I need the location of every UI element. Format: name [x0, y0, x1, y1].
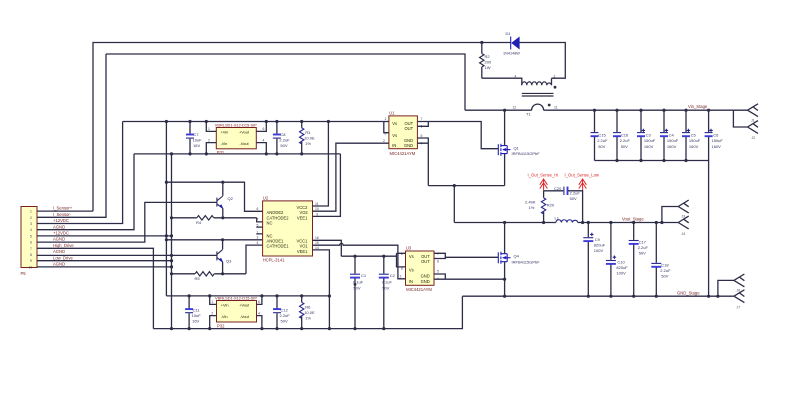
svg-text:6: 6 [257, 207, 259, 211]
svg-text:I_Out_Sense_Hi: I_Out_Sense_Hi [528, 172, 559, 177]
svg-text:1: 1 [385, 117, 387, 121]
svg-text:-Vin: -Vin [221, 314, 228, 319]
svg-text:16: 16 [315, 236, 319, 240]
wire VEE1 drop [313, 250, 330, 329]
svg-text:6: 6 [437, 259, 439, 263]
wire AGND bus (second rail) [134, 153, 340, 155]
capacitor C9 [583, 223, 605, 297]
capacitor C1 [350, 256, 367, 330]
svg-text:7: 7 [257, 218, 259, 222]
svg-text:Q2: Q2 [228, 196, 234, 201]
wire Vin caps return bus [595, 161, 709, 297]
svg-text:High_Drive: High_Drive [53, 243, 74, 248]
svg-text:P32: P32 [217, 323, 225, 328]
svg-text:15: 15 [315, 241, 319, 245]
svg-text:9: 9 [316, 212, 318, 216]
svg-text:Q3: Q3 [226, 259, 232, 264]
resistor R5 [172, 272, 247, 281]
svg-text:2.2uF: 2.2uF [660, 268, 671, 273]
svg-text:C20: C20 [554, 186, 562, 191]
wire D1 anode to cathode loop right [519, 43, 565, 79]
wire VO2 riser to U1 IN [313, 143, 389, 211]
capacitor C6 [705, 110, 724, 160]
svg-text:6: 6 [258, 300, 260, 304]
svg-text:50V: 50V [598, 144, 605, 149]
capacitor C10 [606, 223, 628, 297]
svg-text:2.2uF: 2.2uF [597, 138, 608, 143]
connector P5 [21, 207, 38, 277]
svg-text:U3: U3 [406, 246, 412, 251]
svg-text:R20: R20 [547, 203, 555, 208]
svg-text:C7: C7 [194, 132, 200, 137]
capacitor C11 [185, 296, 201, 330]
svg-text:1%: 1% [305, 316, 311, 321]
svg-text:+Vout: +Vout [239, 130, 250, 135]
svg-text:50V: 50V [353, 285, 360, 290]
dc-dc module P32 [210, 296, 262, 329]
connector J3 [662, 200, 689, 222]
svg-text:6: 6 [263, 127, 265, 131]
capacitor C16 [613, 110, 630, 160]
svg-text:+Vin: +Vin [221, 130, 229, 135]
capacitor C17 [629, 223, 649, 297]
transistor Q4 [498, 223, 540, 297]
svg-text:6: 6 [30, 241, 32, 245]
wire AGND column B [171, 154, 173, 329]
svg-text:AGND: AGND [53, 249, 65, 254]
svg-text:HCPL-3141: HCPL-3141 [263, 257, 286, 262]
svg-text:+Vout: +Vout [239, 303, 250, 308]
wire P5 pin2 [37, 54, 106, 217]
wire P5 pin6 to Q2 base [37, 202, 217, 242]
svg-text:2.49K: 2.49K [525, 200, 536, 205]
wire U1 GND to Q1 source node [428, 185, 504, 187]
svg-text:11: 11 [554, 106, 558, 110]
resistor R4 [170, 216, 257, 225]
svg-text:IN: IN [392, 143, 396, 148]
svg-text:Vs: Vs [409, 254, 414, 259]
wire +12V to ANODE1 [166, 239, 262, 241]
wire P5 pin8 to Q3 base [37, 254, 217, 256]
svg-text:C6: C6 [713, 132, 719, 137]
capacitor C8 [273, 122, 290, 154]
wire U1 GND bracket and drop [417, 138, 428, 186]
wire secondary bus left [465, 109, 532, 111]
svg-text:820uF: 820uF [594, 242, 606, 247]
svg-text:VEE1: VEE1 [297, 249, 308, 254]
SEC-TOPLOOP [93, 31, 758, 296]
resistor R2 [480, 43, 492, 79]
svg-text:2: 2 [208, 138, 210, 142]
svg-text:1: 1 [208, 127, 210, 131]
svg-text:R4: R4 [196, 220, 202, 225]
svg-text:C2: C2 [390, 273, 396, 278]
svg-text:I_Sensor-: I_Sensor- [53, 212, 72, 217]
svg-text:+12VDC: +12VDC [53, 218, 69, 223]
svg-text:U2: U2 [263, 196, 269, 201]
svg-text:100V: 100V [594, 248, 604, 253]
svg-text:D1: D1 [506, 31, 512, 36]
wire net I_Sensor+ top [93, 43, 511, 212]
svg-text:R3: R3 [305, 130, 311, 135]
svg-text:10.0E: 10.0E [304, 310, 315, 315]
svg-text:Vin_Stage: Vin_Stage [688, 104, 708, 109]
wire GND stage bus [462, 295, 734, 297]
connector J4 [678, 216, 689, 236]
svg-text:AGND: AGND [53, 237, 65, 242]
svg-text:2: 2 [400, 274, 402, 278]
svg-text:4: 4 [257, 241, 259, 245]
wire +12V bus (top rail) [123, 121, 384, 123]
svg-text:GND: GND [421, 279, 430, 284]
svg-text:C12: C12 [281, 307, 289, 312]
svg-text:P5: P5 [21, 271, 27, 276]
wire switch node bus to L1 [454, 222, 556, 224]
svg-text:50V: 50V [661, 274, 668, 279]
svg-text:2.2uF: 2.2uF [280, 313, 291, 318]
capacitor C12 [273, 296, 290, 330]
svg-text:50V: 50V [281, 318, 288, 323]
svg-text:C16: C16 [621, 132, 629, 137]
svg-text:C8: C8 [280, 132, 286, 137]
inductor L1 [555, 216, 578, 223]
svg-text:U1: U1 [389, 111, 395, 116]
svg-text:VBRLSD1-S12-D15-SIP: VBRLSD1-S12-D15-SIP [215, 122, 257, 127]
svg-text:100V: 100V [616, 271, 626, 276]
capacitor C4 [660, 110, 679, 160]
svg-text:-Vout: -Vout [240, 314, 250, 319]
svg-text:Vout_Stage: Vout_Stage [622, 216, 644, 221]
svg-text:10uF: 10uF [193, 138, 203, 143]
svg-text:IRFB4115GPbF: IRFB4115GPbF [512, 151, 541, 156]
svg-text:-Vout: -Vout [240, 141, 250, 146]
wire U1 Vs bracket [384, 122, 389, 133]
svg-text:1N4148W: 1N4148W [503, 52, 520, 56]
svg-text:I_Out_Sense_Low: I_Out_Sense_Low [565, 172, 600, 177]
svg-text:3: 3 [257, 236, 259, 240]
svg-text:2.2uF: 2.2uF [570, 191, 581, 196]
svg-text:150uF: 150uF [667, 138, 679, 143]
svg-text:Vs: Vs [392, 133, 397, 138]
svg-text:4: 4 [30, 228, 32, 232]
wire bottom common bus [153, 296, 462, 328]
connector J7 [734, 290, 745, 310]
transformer T1 [513, 75, 558, 117]
svg-text:4: 4 [258, 311, 260, 315]
wire VCC2 riser [313, 122, 329, 207]
svg-text:Q4: Q4 [514, 254, 520, 259]
svg-text:C4: C4 [669, 132, 675, 137]
wire R5 line riser to CATHODE1 [246, 245, 263, 274]
wire P5 pin3 +12VDC riser [37, 122, 123, 224]
svg-text:5: 5 [30, 234, 32, 238]
svg-text:P31: P31 [217, 150, 225, 155]
svg-text:C15: C15 [598, 132, 606, 137]
svg-text:2: 2 [30, 216, 32, 220]
svg-text:J7: J7 [737, 306, 741, 310]
wire P5 pin9 [37, 260, 172, 262]
svg-text:2.2uF: 2.2uF [638, 245, 649, 250]
wire P5 pin5 [37, 235, 172, 237]
wire VO1 to U3 IN (with hop) [313, 243, 406, 278]
svg-text:1W: 1W [485, 65, 491, 70]
wire Vs rail of U3 [341, 255, 396, 257]
transistor Q2 [217, 182, 234, 218]
svg-text:50V: 50V [621, 144, 628, 149]
svg-text:1: 1 [211, 300, 213, 304]
wire Vin stage bus [544, 109, 734, 111]
SEC-MID [153, 110, 540, 330]
svg-text:R6: R6 [305, 305, 311, 310]
svg-text:Vs: Vs [392, 121, 397, 126]
svg-text:I_Sensor+: I_Sensor+ [53, 206, 73, 211]
connector J2 [733, 110, 758, 140]
svg-text:J2: J2 [752, 136, 756, 140]
svg-text:50V: 50V [382, 285, 389, 290]
svg-text:J4: J4 [682, 232, 686, 236]
svg-text:-Vin: -Vin [221, 141, 228, 146]
wire step to switch bus [453, 186, 455, 223]
svg-text:C9: C9 [595, 237, 601, 242]
svg-text:C10: C10 [617, 260, 625, 265]
wire Vout bus [578, 222, 678, 224]
svg-text:4: 4 [263, 138, 265, 142]
wire P32 +12V top bus [166, 295, 329, 297]
svg-text:5: 5 [437, 270, 439, 274]
svg-text:10: 10 [29, 265, 33, 269]
svg-text:3: 3 [30, 222, 32, 226]
svg-text:820uF: 820uF [616, 265, 628, 270]
wire +12V to LED anodes [166, 182, 262, 211]
svg-text:OUT: OUT [421, 259, 430, 264]
svg-text:2.2uF: 2.2uF [279, 138, 290, 143]
dc-dc module P31 [206, 122, 266, 156]
svg-text:IN: IN [409, 279, 413, 284]
svg-text:MIC4421AYM: MIC4421AYM [390, 151, 416, 156]
svg-text:10: 10 [315, 207, 319, 211]
svg-text:NC: NC [267, 221, 273, 226]
svg-text:200: 200 [485, 60, 492, 65]
svg-text:10uF: 10uF [192, 313, 202, 318]
testpoint arrow I_Out_Sense_Hi [540, 179, 548, 191]
wire U3 GND bracket [434, 274, 505, 279]
svg-text:16V: 16V [192, 318, 199, 323]
svg-text:8: 8 [30, 253, 32, 257]
wire P5 pin1 [37, 210, 93, 212]
wire VEE1(2) riser [313, 154, 341, 217]
connector J6 [718, 274, 745, 296]
resistor R6 [300, 296, 315, 330]
transistor Q1 [498, 110, 540, 185]
svg-text:50V: 50V [280, 143, 287, 148]
svg-text:C17: C17 [639, 240, 647, 245]
svg-text:2: 2 [211, 311, 213, 315]
svg-text:GND_Stage: GND_Stage [677, 290, 700, 295]
svg-text:9: 9 [30, 259, 32, 263]
svg-text:C11: C11 [193, 307, 201, 312]
wire P5 pin4 AGND riser [37, 154, 134, 230]
svg-text:50V: 50V [639, 251, 646, 256]
svg-text:R2: R2 [485, 54, 491, 59]
svg-text:Q1: Q1 [514, 145, 520, 150]
capacitor C2 [379, 256, 396, 330]
svg-text:160V: 160V [644, 144, 654, 149]
testpoint arrow I_Out_Sense_Low [579, 179, 587, 191]
svg-text:R5: R5 [195, 276, 201, 281]
wire net I_Sensor- [106, 54, 465, 110]
svg-text:+12VDC: +12VDC [53, 231, 69, 236]
svg-text:AGND: AGND [53, 262, 65, 267]
svg-text:2: 2 [383, 139, 385, 143]
wire R2 top junction [480, 41, 483, 44]
svg-text:4: 4 [515, 75, 517, 79]
capacitor C18 [651, 223, 671, 297]
svg-text:2.2uF: 2.2uF [620, 138, 631, 143]
svg-text:50V: 50V [570, 196, 577, 201]
svg-text:7: 7 [421, 117, 423, 121]
svg-text:150uF: 150uF [712, 138, 724, 143]
svg-text:C18: C18 [661, 263, 669, 268]
svg-text:GND: GND [404, 143, 413, 148]
svg-text:1%: 1% [529, 205, 535, 210]
resistor R20 [525, 191, 555, 223]
svg-text:T1: T1 [526, 112, 531, 117]
SEC-LEFT [21, 54, 384, 330]
wire R4 line step to CATHODE2 [257, 218, 263, 222]
svg-text:MIC4421AYM: MIC4421AYM [406, 287, 432, 292]
svg-text:CATHODE1: CATHODE1 [267, 244, 290, 249]
op-amp U3 (MIC4421 low side driver) [400, 246, 440, 293]
svg-text:11: 11 [315, 202, 319, 206]
SEC-RIGHT [454, 172, 744, 309]
svg-text:IRFB4115GPbF: IRFB4115GPbF [512, 259, 541, 264]
svg-text:C5: C5 [691, 132, 697, 137]
wire VCC1 to Vs rail [313, 240, 342, 256]
svg-text:16V: 16V [193, 143, 200, 148]
svg-text:C1: C1 [361, 273, 367, 278]
svg-text:12: 12 [513, 106, 517, 110]
svg-text:160V: 160V [689, 144, 699, 149]
svg-text:J6: J6 [737, 289, 741, 293]
resistor R3 [300, 122, 315, 154]
wire U1 OUT bracket to Q1 gate [417, 122, 498, 149]
svg-text:150uF: 150uF [644, 138, 656, 143]
svg-text:AGND: AGND [53, 224, 65, 229]
svg-text:Vs: Vs [409, 267, 414, 272]
svg-text:10.0E: 10.0E [304, 136, 315, 141]
svg-text:150uF: 150uF [689, 138, 701, 143]
wire P5 pin7 AGND drop [37, 248, 153, 328]
svg-text:2: 2 [554, 75, 556, 79]
wire T1 secondary hump [532, 104, 544, 110]
capacitor C3 [637, 110, 656, 160]
capacitor C5 [682, 110, 701, 160]
diode D1 [503, 31, 520, 55]
wire +12V column A [165, 122, 167, 296]
svg-text:160V: 160V [667, 144, 677, 149]
capacitor C15 [591, 110, 608, 160]
svg-text:J1: J1 [751, 119, 755, 123]
wire R2 bottom to T1 primary [482, 78, 522, 85]
wire U3 Vs bracket [397, 253, 406, 267]
svg-text:+Vin: +Vin [221, 303, 229, 308]
wire P5 pin10 [37, 266, 172, 268]
svg-text:OUT: OUT [405, 126, 414, 131]
svg-text:VEE1: VEE1 [297, 215, 308, 220]
svg-text:1%: 1% [305, 141, 311, 146]
op-amp U1 (MIC4421 high side driver) [383, 111, 423, 156]
svg-text:7: 7 [30, 247, 32, 251]
wire U3 OUT bracket to Q4 gate [434, 253, 498, 258]
svg-text:1: 1 [30, 210, 32, 214]
svg-text:0.1uF: 0.1uF [382, 280, 393, 285]
svg-text:0.1uF: 0.1uF [353, 280, 364, 285]
connector J1 [733, 104, 758, 123]
op-amp U2 (HCPL-3141 optocoupler) [256, 196, 319, 263]
svg-text:C3: C3 [646, 132, 652, 137]
svg-text:160V: 160V [712, 144, 722, 149]
capacitor C20 [544, 186, 583, 223]
wire T1 primary pin2 up [551, 78, 553, 85]
svg-text:L1: L1 [555, 216, 560, 221]
capacitor C7 [186, 122, 202, 154]
transistor Q3 [217, 240, 232, 274]
